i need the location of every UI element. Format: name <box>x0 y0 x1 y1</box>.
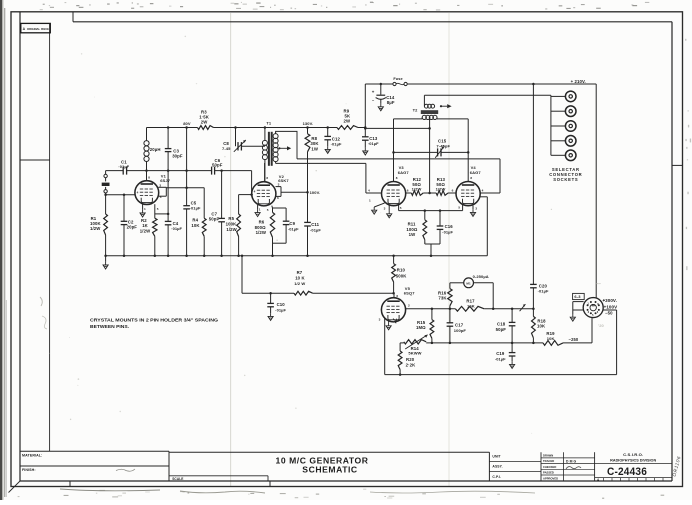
svg-text:6SK7: 6SK7 <box>278 178 289 183</box>
resistor R16 <box>438 283 464 309</box>
capacitor C19 <box>495 343 516 362</box>
vacuum tube V1 <box>135 171 171 212</box>
node +210V <box>571 79 586 84</box>
svg-text:·01µF: ·01µF <box>171 226 182 231</box>
capacitor C5 <box>183 126 201 256</box>
capacitor C9 <box>273 208 300 243</box>
wire T2 centre tap feed <box>364 119 431 193</box>
svg-text:R1: R1 <box>91 216 97 221</box>
wire -250 line <box>400 318 592 344</box>
capacitor C1 <box>106 159 147 174</box>
svg-text:·01µF: ·01µF <box>442 229 453 234</box>
power socket V6 <box>583 298 603 318</box>
capacitor C15 (7-45pF variable) <box>392 139 469 158</box>
resistor R2 <box>140 204 168 256</box>
svg-text:1/2W: 1/2W <box>412 187 422 192</box>
svg-text:100V.: 100V. <box>310 190 321 195</box>
ground C10 <box>268 313 273 320</box>
svg-text:MATERIAL:: MATERIAL: <box>22 453 42 457</box>
svg-text:4: 4 <box>137 190 139 194</box>
capacitor C6 <box>212 158 223 175</box>
resistor R17 <box>455 299 484 312</box>
wire T2 link to sockets <box>424 95 551 155</box>
pencil scribble left margin <box>40 297 47 329</box>
svg-text:′′′′: ′′′′ <box>596 282 601 287</box>
capacitor C8 <box>222 126 265 152</box>
label 6-3 heater <box>573 293 585 299</box>
svg-text:UNIT: UNIT <box>492 454 501 458</box>
wire R7 node line <box>242 256 395 295</box>
svg-text:30pF: 30pF <box>172 154 183 159</box>
svg-text:3: 3 <box>384 207 386 211</box>
svg-text:C.S.I.R.O.: C.S.I.R.O. <box>623 453 643 457</box>
svg-text:20pF: 20pF <box>127 225 138 230</box>
svg-text:RADIOPHYSICS DIVISION: RADIOPHYSICS DIVISION <box>610 459 656 463</box>
capacitor C13 <box>362 126 379 148</box>
ground V3 shell <box>372 207 377 214</box>
svg-text:5: 5 <box>458 206 460 210</box>
resistor R7 <box>294 270 313 295</box>
svg-text:M1: M1 <box>466 281 471 285</box>
svg-text:APPROVED: APPROVED <box>543 476 558 480</box>
wire V1 pin1 to ground <box>142 204 144 210</box>
ground bus arrow <box>103 256 108 269</box>
ground V3 cathode <box>387 211 392 218</box>
svg-text:5: 5 <box>400 206 402 210</box>
svg-text:R4: R4 <box>192 217 198 222</box>
svg-text:3: 3 <box>379 318 381 322</box>
svg-text:FINISH:: FINISH: <box>22 468 36 472</box>
svg-text:·01µF: ·01µF <box>538 289 549 294</box>
svg-text:A: A <box>23 27 26 31</box>
resistor R5 <box>226 195 241 256</box>
svg-text:SCHEMATIC: SCHEMATIC <box>302 464 357 474</box>
capacitor C10 <box>267 293 286 313</box>
svg-text:130V.: 130V. <box>303 121 314 126</box>
svg-text:1MΩ: 1MΩ <box>416 325 426 330</box>
capacitor C16 <box>437 209 454 244</box>
svg-text:R7: R7 <box>297 270 303 275</box>
wire V5 plate line <box>405 308 534 311</box>
svg-text:·01µF: ·01µF <box>190 205 201 210</box>
svg-text:7-45: 7-45 <box>222 146 231 151</box>
svg-text:8: 8 <box>266 176 268 180</box>
wire V2 screen to 100V node <box>276 187 308 197</box>
revision strip <box>20 23 50 451</box>
svg-text:6: 6 <box>407 188 409 192</box>
meter M1 <box>464 274 494 309</box>
svg-text:+100V: +100V <box>604 305 618 310</box>
ground V2 cathode <box>255 209 260 216</box>
svg-text:·01µF: ·01µF <box>331 142 342 147</box>
svg-text:1/2W: 1/2W <box>256 230 267 235</box>
capacitor C3 <box>165 126 183 170</box>
svg-text:−250: −250 <box>569 337 579 342</box>
svg-text:6-3: 6-3 <box>574 294 581 299</box>
svg-text:73K: 73K <box>438 296 447 301</box>
wire V1 grid line <box>104 194 134 197</box>
node 130V <box>303 121 314 126</box>
svg-text:6: 6 <box>396 294 398 298</box>
svg-text:7-45pF: 7-45pF <box>436 144 450 149</box>
svg-text:1/2W: 1/2W <box>436 187 446 192</box>
wire V4 grid <box>480 192 500 194</box>
wire T2 to V3 plate <box>394 119 423 182</box>
svg-text:1: 1 <box>259 208 261 212</box>
vacuum tube V3 <box>368 165 409 210</box>
svg-text:·01µF: ·01µF <box>495 356 506 361</box>
wire V4 grounds <box>472 206 474 210</box>
svg-text:·01µF: ·01µF <box>275 307 286 312</box>
svg-text:4: 4 <box>254 189 256 193</box>
wire T2 to V4 plate <box>437 119 468 182</box>
svg-text:6: 6 <box>160 195 162 199</box>
vacuum tube V4 <box>452 165 484 210</box>
vacuum tube V5 <box>379 286 416 323</box>
svg-text:·01µF: ·01µF <box>310 227 321 232</box>
svg-text:TRACED: TRACED <box>543 459 554 463</box>
svg-text:R11: R11 <box>408 222 416 227</box>
wire push-pull grid line A <box>297 159 500 193</box>
svg-text:SCALE: SCALE <box>172 477 183 481</box>
svg-text:1: 1 <box>369 198 371 202</box>
svg-text:+ 210V.: + 210V. <box>571 79 586 84</box>
node +300V <box>602 298 617 303</box>
svg-text:8: 8 <box>396 176 398 180</box>
svg-text:1/2W: 1/2W <box>140 228 151 233</box>
resistor R4 <box>191 217 206 255</box>
svg-text:BETWEEN PINS.: BETWEEN PINS. <box>90 324 129 329</box>
drawing title text <box>276 456 369 475</box>
svg-text:6AG7: 6AG7 <box>470 170 482 175</box>
ground V4 cathode <box>470 209 475 216</box>
resistor R1 <box>90 195 108 256</box>
wire +210V fuse line <box>365 83 596 298</box>
svg-text:D M G: D M G <box>566 459 577 463</box>
svg-text:·01µF: ·01µF <box>288 226 299 231</box>
svg-text:5KWW: 5KWW <box>408 350 421 355</box>
svg-text:10 K: 10 K <box>295 275 305 280</box>
svg-text:20µH: 20µH <box>150 147 161 152</box>
fold line <box>231 13 449 486</box>
wire V5 pin3 to bottom bus <box>384 318 386 375</box>
ground C19 <box>510 361 515 368</box>
svg-text:R15: R15 <box>417 320 426 325</box>
svg-text:T1: T1 <box>266 121 272 126</box>
svg-text:1/2W: 1/2W <box>90 226 101 231</box>
svg-text:100K: 100K <box>226 222 237 227</box>
inductor 20uH <box>144 128 161 171</box>
svg-text:8: 8 <box>148 175 150 179</box>
capacitor C11 <box>304 222 321 256</box>
svg-text:CRYSTAL MOUNTS IN 2 PIN HOL: CRYSTAL MOUNTS IN 2 PIN HOLDER 3/4″ SPAC… <box>90 318 219 323</box>
capacitor C14 <box>372 84 395 105</box>
svg-text:−50: −50 <box>605 311 613 316</box>
wire V1 screen line <box>158 186 204 218</box>
svg-text:4: 4 <box>368 189 370 193</box>
svg-text:·01µF: ·01µF <box>368 141 379 146</box>
svg-text:5: 5 <box>157 207 159 211</box>
wire push-pull grid line B <box>276 163 366 193</box>
resistor R20 <box>398 343 416 375</box>
svg-text:1/2W: 1/2W <box>226 227 237 232</box>
note crystal mounting <box>90 318 219 329</box>
resistor R6 and cathode network <box>255 206 287 256</box>
potentiometer R14 <box>404 335 428 356</box>
svg-text:50pF: 50pF <box>212 163 223 168</box>
svg-text:10K: 10K <box>191 223 200 228</box>
svg-text:80V: 80V <box>183 121 191 126</box>
svg-text:2: 2 <box>408 303 410 307</box>
svg-text:10K: 10K <box>467 303 475 308</box>
svg-text:R10: R10 <box>397 268 406 273</box>
fuse F1 <box>393 77 407 86</box>
wire V3 grounds <box>374 203 389 211</box>
title block <box>20 451 489 481</box>
capacitor C18 <box>496 309 516 343</box>
capacitor C7 <box>209 169 225 255</box>
ground V1 cathode <box>140 210 145 217</box>
resistor R18 <box>532 309 547 343</box>
svg-text:100pF: 100pF <box>454 328 467 333</box>
node -250 <box>569 337 579 342</box>
resistor R3 <box>198 110 214 130</box>
node -50 <box>605 311 613 316</box>
ground C14 <box>378 104 383 111</box>
svg-text:2·2K: 2·2K <box>406 362 417 367</box>
svg-text:8: 8 <box>470 176 472 180</box>
resistor R11 <box>406 211 440 256</box>
svg-text:+: + <box>372 89 375 94</box>
capacitor C4 <box>165 171 183 256</box>
svg-text:PASSED: PASSED <box>543 471 554 475</box>
crystal X1 <box>102 171 110 195</box>
ground C13 <box>363 148 368 155</box>
resistor R9 <box>337 109 358 130</box>
svg-text:10K: 10K <box>537 324 546 329</box>
svg-text:8µF: 8µF <box>387 100 395 105</box>
svg-text:C9: C9 <box>289 221 295 226</box>
drawing number side note <box>672 455 683 477</box>
svg-text:CHECKED: CHECKED <box>543 465 556 469</box>
border centre ticks <box>70 165 683 486</box>
node +100V <box>604 305 618 310</box>
node 100V <box>310 190 321 195</box>
svg-text:50pF: 50pF <box>209 217 220 222</box>
ground C12 <box>325 146 330 153</box>
capacitor C17 <box>447 309 467 343</box>
svg-text:0-250µA: 0-250µA <box>473 274 489 279</box>
svg-text:DRAWN: DRAWN <box>543 453 553 457</box>
title block right columns <box>489 452 672 482</box>
svg-text:C-24436: C-24436 <box>607 466 647 478</box>
svg-text:C10: C10 <box>277 302 286 307</box>
svg-text:1W: 1W <box>409 232 416 237</box>
ground V6 <box>570 314 575 321</box>
transformer T2 <box>413 95 452 119</box>
svg-text:50pF: 50pF <box>496 327 507 332</box>
resistor R12 <box>406 177 431 195</box>
ground V5 cathode <box>386 321 391 330</box>
svg-text:5: 5 <box>267 208 269 212</box>
svg-text:T2: T2 <box>413 107 419 112</box>
corner diagonal mark <box>9 481 21 493</box>
node 80V <box>183 121 191 126</box>
resistor R10 <box>392 256 408 293</box>
capacitor C20 <box>530 84 549 309</box>
svg-text:6SQ7: 6SQ7 <box>404 291 415 296</box>
svg-text:1: 1 <box>144 207 146 211</box>
wire V3/V4 suppressor line <box>399 205 463 212</box>
capacitor C2 <box>121 195 138 256</box>
svg-text:6SJ7: 6SJ7 <box>160 178 171 183</box>
svg-text:6AG7: 6AG7 <box>398 170 410 175</box>
svg-text:2W: 2W <box>201 120 208 125</box>
resistor R8 <box>305 126 319 222</box>
wire V6 left stubs <box>573 302 584 314</box>
wire grid/C6 line <box>145 169 251 194</box>
resistor R19 <box>543 331 563 345</box>
vacuum tube V2 <box>252 163 290 212</box>
transformer T1 <box>262 121 297 181</box>
wire V2 grid <box>239 193 253 196</box>
paper edge shading <box>0 0 6 500</box>
capacitor C12 <box>324 126 342 146</box>
wiper arrow on plate line <box>520 304 526 311</box>
selector connector sockets <box>549 91 582 182</box>
wire 80V rail <box>147 127 366 129</box>
svg-text:R6: R6 <box>259 219 265 224</box>
wire V2 pin1 ground <box>257 205 259 210</box>
wire V3 grid stub <box>366 192 382 194</box>
svg-text:R5: R5 <box>228 216 234 221</box>
svg-text:500K: 500K <box>396 273 407 278</box>
wire V4 cathode to bus <box>480 197 487 256</box>
svg-text:ORIGINAL ISSUE: ORIGINAL ISSUE <box>27 27 49 31</box>
svg-text:2W: 2W <box>344 119 351 124</box>
svg-text:·01µF: ·01µF <box>118 164 129 169</box>
svg-text:3: 3 <box>475 207 477 211</box>
resistor R13 <box>430 177 457 195</box>
wire bottom bus <box>385 310 617 376</box>
svg-text:1/2 W: 1/2 W <box>294 281 305 286</box>
svg-text:ASSY.: ASSY. <box>492 465 502 469</box>
svg-text:Fuse: Fuse <box>393 77 402 81</box>
svg-text:6: 6 <box>452 188 454 192</box>
pencil mark near V6 <box>596 282 605 328</box>
svg-text:SOCKETS: SOCKETS <box>553 177 578 182</box>
svg-text:1W: 1W <box>311 146 318 151</box>
svg-text:10K: 10K <box>547 336 555 341</box>
svg-text:+300V.: +300V. <box>602 298 617 303</box>
resistor R15 <box>416 309 434 343</box>
svg-text:4: 4 <box>482 189 484 193</box>
revision box A ORIGINAL ISSUE <box>21 23 51 32</box>
svg-text:C.P.I.: C.P.I. <box>492 475 501 479</box>
wire ground bus <box>104 255 487 257</box>
svg-text:’20: ’20 <box>598 323 605 328</box>
